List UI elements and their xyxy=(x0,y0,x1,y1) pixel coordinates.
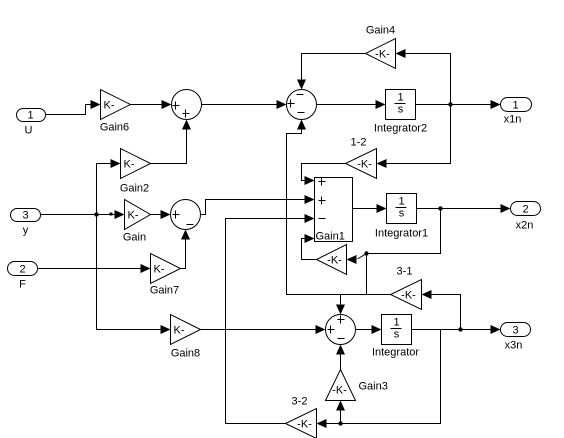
integrator Integrator xyxy=(382,315,412,345)
arrow into sum rect port3 xyxy=(305,214,315,223)
wire gain 3-2 to sum rect port3 xyxy=(226,219,305,424)
wire U to Gain6 xyxy=(46,105,91,115)
gain Gain8 xyxy=(171,315,201,345)
wire Integrator1 to out x2n xyxy=(417,208,501,210)
gain 1-2 xyxy=(346,149,377,179)
svg-text:Gain2: Gain2 xyxy=(120,183,149,195)
arrow into Gain8 xyxy=(161,325,171,334)
svg-text:1-2: 1-2 xyxy=(351,137,367,149)
svg-text:K-: K- xyxy=(124,159,135,171)
integrator fraction bars xyxy=(391,104,407,329)
wire branch to Sum4 top xyxy=(340,295,342,305)
arrow into out x3n xyxy=(491,325,501,334)
arrow into out x1n xyxy=(491,100,501,109)
svg-text:-K-: -K- xyxy=(297,419,312,431)
svg-text:-K-: -K- xyxy=(375,49,390,61)
gain -K- feedback xyxy=(317,245,347,275)
integrator Integrator1 xyxy=(387,194,417,224)
arrow into Gain xyxy=(115,210,125,219)
wire Sum2 to Integrator2 xyxy=(317,104,377,106)
svg-text:Integrator1: Integrator1 xyxy=(375,228,428,240)
svg-text:Gain7: Gain7 xyxy=(150,285,179,297)
arrow into Gain2 xyxy=(111,159,121,168)
svg-text:-K-: -K- xyxy=(327,255,342,267)
wire sum rect to Integrator1 xyxy=(353,208,377,210)
wire branch x1n down to gain 1-2 xyxy=(387,105,451,164)
arrow into gain -K- xyxy=(347,255,357,264)
wire F to Gain7 xyxy=(38,268,141,270)
svg-text:3: 3 xyxy=(22,210,28,222)
sign Sum2 top minus xyxy=(297,94,304,96)
sign sum rect port1 plus xyxy=(319,178,326,186)
arrow into Integrator xyxy=(372,325,382,334)
arrow into gain 3-1 xyxy=(422,290,432,299)
svg-text:1: 1 xyxy=(27,110,33,122)
node tick before Gain xyxy=(110,213,113,216)
integrator Integrator2 xyxy=(386,90,416,120)
arrow into Sum2 bottom xyxy=(297,120,306,130)
svg-text:K-: K- xyxy=(154,264,165,276)
gain Gain6 xyxy=(101,90,131,120)
gain Gain2 xyxy=(121,149,151,179)
arrow into sum rect port1 xyxy=(305,176,315,185)
svg-text:Gain3: Gain3 xyxy=(359,381,388,393)
wire branch y down to Gain8 xyxy=(97,215,161,330)
wire Gain2 to Sum1 bottom xyxy=(151,130,187,164)
svg-text:1: 1 xyxy=(398,196,404,208)
svg-text:y: y xyxy=(23,225,29,237)
svg-text:Integrator: Integrator xyxy=(372,347,419,359)
wire branch x1n up to Gain4 xyxy=(406,54,451,105)
svg-text:Gain: Gain xyxy=(123,232,146,244)
svg-text:Integrator2: Integrator2 xyxy=(374,123,427,135)
wire y to Gain xyxy=(41,214,115,216)
node x2n feedback corner xyxy=(364,251,368,255)
svg-text:s: s xyxy=(394,329,400,341)
svg-text:K-: K- xyxy=(128,210,139,222)
node x3n branch xyxy=(458,327,462,331)
sign Sum3 bottom minus xyxy=(187,224,194,226)
wire branch x2n down to node xyxy=(368,209,441,254)
node x1n branch xyxy=(448,102,452,106)
outport 1 x1n xyxy=(501,98,532,112)
svg-text:3-2: 3-2 xyxy=(292,396,308,408)
svg-text:Gain1: Gain1 xyxy=(316,231,345,243)
svg-text:x3n: x3n xyxy=(505,340,523,352)
svg-text:x2n: x2n xyxy=(516,220,534,232)
sign Sum4 bottom minus xyxy=(338,338,345,340)
svg-text:2: 2 xyxy=(522,204,528,216)
sum signs drawn as strokes xyxy=(173,95,407,339)
sign Sum3 left plus xyxy=(173,211,180,219)
wire Gain3 to Sum4 bottom xyxy=(340,355,342,370)
gain 3-2 xyxy=(286,409,317,438)
arrow into Sum1 bottom xyxy=(182,120,191,130)
wire Gain to Sum3 xyxy=(151,214,161,216)
wire Integrator2 to out x1n xyxy=(416,104,492,106)
inport 1 U xyxy=(17,109,46,122)
svg-text:2: 2 xyxy=(19,264,25,276)
wire Integrator to out x3n xyxy=(412,329,492,331)
sign Sum2 bottom minus xyxy=(298,112,305,114)
sign sum rect port2 plus xyxy=(319,197,326,205)
arrow into Gain7 xyxy=(141,264,151,273)
sign Sum2 left plus xyxy=(288,100,295,108)
sign sum rect port3 minus xyxy=(319,218,326,220)
arrow into Sum3 left xyxy=(161,210,171,219)
sign Sum4 left plus xyxy=(328,326,335,334)
arrow into Sum3 bottom xyxy=(181,230,190,240)
svg-text:Gain8: Gain8 xyxy=(171,348,200,360)
wire branch x3n up to gain 3-1 xyxy=(432,295,461,330)
wire Gain7 to Sum3 bottom xyxy=(181,240,186,269)
svg-text:1: 1 xyxy=(393,317,399,329)
gain Gain4 xyxy=(366,39,396,69)
wire bottom node up to Gain3 xyxy=(340,411,342,424)
arrow into Gain6 xyxy=(91,100,101,109)
sign Sum1 left plus xyxy=(173,102,180,110)
gain Gain7 xyxy=(151,254,181,284)
node y branch xyxy=(94,212,98,216)
wire gain -K- to sum rect port4 xyxy=(302,239,317,260)
gain Gain3 xyxy=(326,370,356,401)
svg-text:U: U xyxy=(25,125,33,137)
arrow into Sum2 left xyxy=(277,100,287,109)
wire node down to 3-1 line xyxy=(366,254,368,295)
svg-text:K-: K- xyxy=(104,100,115,112)
svg-text:Gain6: Gain6 xyxy=(100,122,129,134)
gain 3-1 xyxy=(391,280,422,310)
wire Sum1 to Sum2 xyxy=(202,104,278,106)
arrowheads group xyxy=(91,49,511,428)
gain Gain xyxy=(125,200,151,230)
svg-text:Gain4: Gain4 xyxy=(366,25,395,37)
arrow into Sum4 left xyxy=(316,325,326,334)
arrow into Integrator1 xyxy=(377,204,387,213)
wire Gain8 to Sum4 xyxy=(201,329,317,331)
svg-text:s: s xyxy=(399,208,405,220)
arrow into out x2n xyxy=(501,204,511,213)
inport 2 F xyxy=(8,262,38,276)
wire gain 3-1 to Sum2 bottom xyxy=(287,129,391,295)
svg-text:3-1: 3-1 xyxy=(397,266,413,278)
outport 2 x2n xyxy=(511,202,541,216)
arrow into gain 1-2 xyxy=(377,159,387,168)
svg-text:-K-: -K- xyxy=(401,290,416,302)
sum Sum1 xyxy=(172,90,202,120)
arrow into Gain3 xyxy=(336,401,345,411)
wire Gain6 to Sum1 xyxy=(131,104,163,106)
wire node diagonal into gain -K- xyxy=(358,254,367,260)
inport 3 y xyxy=(11,209,41,222)
wire Sum3 to sum rect port2 xyxy=(201,200,305,215)
wire Gain4 to Sum2 top xyxy=(302,54,366,81)
wires group xyxy=(38,54,501,424)
arrow into sum rect port4 xyxy=(305,234,315,243)
svg-text:-K-: -K- xyxy=(357,159,372,171)
arrow into Sum4 bottom xyxy=(336,345,345,355)
node x2n branch xyxy=(438,206,442,210)
sign Sum4 top plus xyxy=(338,316,345,324)
sum Sum2 xyxy=(287,90,317,120)
sum Sum4 xyxy=(326,315,356,345)
outport 3 x3n xyxy=(501,323,531,337)
svg-text:K-: K- xyxy=(174,325,185,337)
svg-text:F: F xyxy=(19,279,26,291)
node bottom feedback branch xyxy=(338,421,342,425)
sign Sum1 bottom plus xyxy=(183,110,190,118)
wire branch x3n down to bottom feedback xyxy=(327,330,441,424)
arrow into gain 3-2 xyxy=(317,419,327,428)
sum rect Gain1 xyxy=(315,178,353,242)
arrow into Sum2 top xyxy=(297,80,306,90)
wire branch y up to Gain2 xyxy=(97,164,111,215)
arrow into sum rect port2 xyxy=(305,195,315,204)
sum Sum3 xyxy=(171,200,201,230)
svg-text:1: 1 xyxy=(397,92,403,104)
arrow into Gain4 xyxy=(396,49,406,58)
svg-text:3: 3 xyxy=(512,325,518,337)
wire Sum4 to Integrator xyxy=(356,329,373,331)
wire gain 1-2 to sum rect port1 xyxy=(302,164,346,181)
arrow into Sum1 left xyxy=(162,100,172,109)
arrow into Sum4 top xyxy=(336,305,345,315)
svg-text:x1n: x1n xyxy=(504,114,522,126)
svg-text:-K-: -K- xyxy=(332,385,347,397)
svg-text:s: s xyxy=(398,104,404,116)
arrow into Integrator2 xyxy=(376,100,386,109)
svg-text:1: 1 xyxy=(512,100,518,112)
